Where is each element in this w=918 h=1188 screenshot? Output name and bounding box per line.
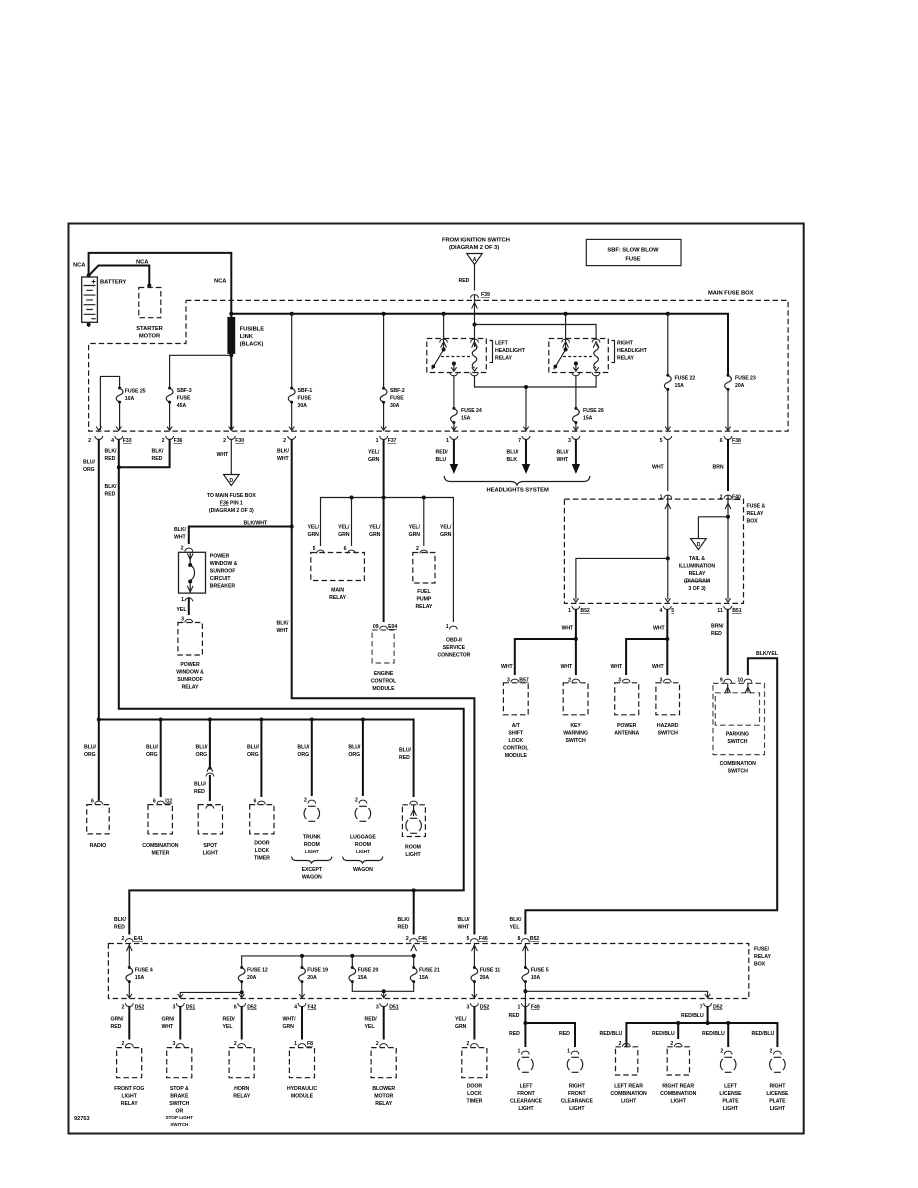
pin 09 E04 ECM — [380, 626, 388, 629]
wire fuse 26 branch — [575, 376, 577, 430]
wire headlamp middle drop — [525, 387, 527, 430]
svg-text:ROOM: ROOM — [355, 842, 371, 848]
triangle A from ignition — [467, 254, 483, 265]
svg-text:HEADLIGHT: HEADLIGHT — [617, 348, 648, 354]
svg-text:FUSE 20: FUSE 20 — [358, 968, 379, 974]
svg-text:D52: D52 — [135, 1005, 145, 1011]
svg-text:GRN: GRN — [283, 1024, 295, 1030]
svg-text:FUSE 21: FUSE 21 — [419, 968, 440, 974]
svg-text:2: 2 — [467, 1041, 470, 1047]
svg-text:YEL: YEL — [223, 1024, 234, 1030]
svg-text:NCA: NCA — [214, 279, 227, 285]
svg-text:7: 7 — [700, 1005, 703, 1011]
trunk room light bulb — [304, 806, 320, 821]
svg-text:20A: 20A — [480, 975, 490, 981]
fuse FUSE 20 15A — [349, 966, 356, 983]
svg-text:FUSE: FUSE — [298, 396, 312, 402]
pin 5 F46 — [470, 939, 478, 942]
svg-text:RELAY: RELAY — [233, 1094, 250, 1100]
label left headlight relay — [490, 341, 493, 363]
svg-text:SBF-2: SBF-2 — [390, 388, 405, 394]
svg-text:POWER: POWER — [180, 662, 200, 668]
pin 2 F36 — [167, 427, 172, 431]
pin 1 F37 — [381, 427, 386, 431]
svg-text:D51: D51 — [389, 1005, 399, 1011]
svg-text:5: 5 — [671, 608, 674, 614]
wire BRN F38-6 — [727, 439, 729, 491]
svg-text:LIGHT: LIGHT — [569, 1106, 585, 1112]
svg-text:YEL/: YEL/ — [368, 450, 380, 456]
svg-text:YEL: YEL — [365, 1024, 376, 1030]
wire left license drop — [727, 1023, 729, 1047]
svg-text:LIGHT: LIGHT — [122, 1094, 138, 1100]
wire fuel pump drop — [423, 498, 425, 547]
svg-text:RED/BLU: RED/BLU — [600, 1031, 623, 1037]
svg-text:F46: F46 — [418, 936, 427, 942]
pin 1 F40 — [664, 495, 672, 498]
fuse FUSE 19 20A — [299, 966, 306, 983]
combination switch outer box — [713, 683, 765, 754]
svg-text:RELAY: RELAY — [375, 1101, 392, 1107]
svg-text:D: D — [697, 542, 701, 548]
svg-text:YEL/: YEL/ — [338, 525, 350, 531]
svg-text:CLEARANCE: CLEARANCE — [561, 1099, 594, 1105]
pin 6 main relay — [348, 550, 356, 553]
wire BLU/ORG long drop to radio — [98, 439, 100, 800]
svg-text:FUSE: FUSE — [390, 396, 404, 402]
wire fuse 24 branch — [453, 376, 455, 430]
svg-text:3: 3 — [172, 1041, 175, 1047]
fusible link F1 (black) — [227, 317, 235, 354]
svg-text:2: 2 — [416, 546, 419, 552]
svg-text:RELAY: RELAY — [415, 604, 432, 610]
svg-text:FRONT: FRONT — [517, 1091, 535, 1097]
fuel pump relay box — [413, 553, 435, 584]
svg-text:NCA: NCA — [136, 260, 149, 266]
svg-text:11: 11 — [717, 608, 723, 614]
wire SBF-1 drop — [291, 314, 293, 430]
svg-text:YEL: YEL — [177, 607, 188, 613]
svg-text:LEFT: LEFT — [520, 1084, 534, 1090]
wire WHT/GRN hydraulic — [301, 1007, 303, 1040]
svg-text:SWITCH: SWITCH — [169, 1101, 189, 1107]
svg-text:BLK/WHT: BLK/WHT — [244, 521, 268, 527]
svg-text:ORG: ORG — [84, 752, 96, 758]
svg-text:FUSE: FUSE — [177, 396, 191, 402]
svg-text:BLU: BLU — [436, 457, 447, 463]
svg-text:5: 5 — [660, 438, 663, 444]
svg-text:1: 1 — [446, 438, 449, 444]
power window & sunroof relay — [178, 623, 203, 656]
wire rear lights rail — [626, 1023, 777, 1047]
svg-text:LEFT: LEFT — [724, 1084, 738, 1090]
wire BLU/WHT headlight — [575, 439, 577, 464]
svg-text:PLATE: PLATE — [722, 1099, 739, 1105]
svg-text:RED: RED — [105, 492, 116, 498]
node fusible link top — [229, 312, 233, 316]
svg-text:METER: METER — [151, 851, 169, 857]
svg-text:GRN: GRN — [368, 457, 380, 463]
svg-text:GRN: GRN — [409, 532, 421, 538]
svg-text:WHT: WHT — [652, 465, 665, 471]
pin 9 combination — [724, 679, 732, 682]
svg-text:BLK/: BLK/ — [174, 527, 187, 533]
svg-text:D51: D51 — [186, 1005, 196, 1011]
svg-text:2: 2 — [181, 546, 184, 552]
svg-text:LEFT: LEFT — [495, 341, 509, 347]
node tail relay branch 1 — [666, 556, 670, 560]
svg-text:WHT: WHT — [611, 664, 624, 670]
svg-text:D52: D52 — [480, 1005, 490, 1011]
svg-text:9: 9 — [720, 678, 723, 684]
svg-text:SWITCH: SWITCH — [566, 738, 586, 744]
svg-text:PLATE: PLATE — [769, 1099, 786, 1105]
pin 2 circuit breaker — [185, 548, 193, 551]
svg-text:FUSE 22: FUSE 22 — [675, 376, 696, 382]
right relay link dashed — [563, 356, 594, 358]
svg-text:HEADLIGHTS SYSTEM: HEADLIGHTS SYSTEM — [487, 488, 549, 494]
wire fuse5 to D52-7 — [525, 991, 707, 997]
svg-text:RELAY: RELAY — [747, 511, 764, 517]
svg-text:CONNECTOR: CONNECTOR — [437, 653, 470, 659]
svg-text:COMBINATION: COMBINATION — [660, 1091, 697, 1097]
svg-text:LIGHT: LIGHT — [356, 849, 370, 854]
svg-text:LIGHT: LIGHT — [671, 1099, 687, 1105]
fuse FUSE 11 20A — [471, 966, 478, 983]
svg-text:RELAY: RELAY — [754, 954, 771, 960]
svg-text:2: 2 — [304, 798, 307, 804]
svg-text:FUSE &: FUSE & — [747, 504, 766, 510]
wire door lock timer drop — [260, 720, 262, 798]
node starter motor terminal — [147, 284, 151, 288]
svg-text:SUNROOF: SUNROOF — [177, 677, 203, 683]
svg-text:BLK/: BLK/ — [152, 449, 165, 455]
node SBF-1 bus tap — [290, 312, 294, 316]
pin 2 left rear comb — [622, 1043, 630, 1046]
node battery positive — [87, 274, 91, 278]
svg-text:RELAY: RELAY — [329, 595, 346, 601]
svg-text:WAGON: WAGON — [302, 875, 322, 881]
svg-text:FROM IGNITION SWITCH: FROM IGNITION SWITCH — [442, 238, 510, 244]
hazard switch box — [656, 683, 680, 715]
wire left relay switch feed — [443, 314, 445, 348]
pin 2 F40 — [724, 495, 732, 498]
svg-text:HORN: HORN — [234, 1086, 249, 1092]
svg-text:F39: F39 — [481, 292, 490, 298]
svg-text:FUSE 19: FUSE 19 — [307, 968, 328, 974]
pin 3 pw relay — [185, 619, 193, 622]
left relay output — [452, 362, 456, 366]
svg-text:FUSE 25: FUSE 25 — [125, 389, 146, 395]
front fog light relay box — [117, 1048, 142, 1078]
wire GRN/WHT stop switch — [179, 1007, 181, 1040]
svg-text:F36: F36 — [174, 438, 183, 444]
svg-text:ORG: ORG — [146, 752, 158, 758]
svg-text:30A: 30A — [390, 403, 400, 409]
svg-text:15A: 15A — [583, 416, 593, 422]
svg-text:FUSE 26: FUSE 26 — [583, 408, 604, 414]
wire fuse11 column — [473, 944, 475, 998]
svg-text:1: 1 — [518, 1005, 521, 1011]
svg-text:6: 6 — [254, 799, 257, 805]
wire main bus from fusible link — [231, 314, 728, 374]
svg-text:SBF: SLOW BLOW: SBF: SLOW BLOW — [607, 248, 659, 254]
wire RED/BLU rear feed — [707, 1007, 709, 1024]
svg-text:ORG: ORG — [247, 752, 259, 758]
svg-text:LICENSE: LICENSE — [766, 1091, 789, 1097]
svg-text:6: 6 — [344, 546, 347, 552]
svg-text:2: 2 — [720, 1049, 723, 1055]
svg-text:HEADLIGHT: HEADLIGHT — [495, 348, 526, 354]
svg-text:ENGINE: ENGINE — [374, 671, 394, 677]
svg-text:LUGGAGE: LUGGAGE — [350, 835, 376, 841]
pin 3 D51 blower — [380, 1003, 388, 1006]
svg-text:8: 8 — [518, 936, 521, 942]
pin 2 (BLK/WHT) — [289, 427, 294, 431]
room light bulb — [406, 818, 422, 833]
svg-text:GRN: GRN — [308, 532, 320, 538]
svg-text:2: 2 — [619, 1041, 622, 1047]
node SBF-2 bus tap — [382, 312, 386, 316]
svg-text:BLK/: BLK/ — [114, 917, 127, 923]
svg-text:RED: RED — [111, 1024, 122, 1030]
pin 6 F38 — [725, 427, 730, 431]
svg-text:RED/: RED/ — [436, 450, 449, 456]
svg-text:3: 3 — [172, 1005, 175, 1011]
svg-text:PARKING: PARKING — [726, 732, 749, 738]
svg-text:(DIAGRAM 2 OF 3): (DIAGRAM 2 OF 3) — [449, 245, 499, 251]
svg-text:POWER: POWER — [210, 554, 230, 560]
svg-text:FUSE 11: FUSE 11 — [480, 968, 501, 974]
svg-text:6: 6 — [720, 438, 723, 444]
svg-text:MODULE: MODULE — [505, 753, 528, 759]
svg-text:2: 2 — [406, 936, 409, 942]
wire fuse19 column — [301, 956, 303, 998]
svg-text:GRN: GRN — [440, 532, 452, 538]
svg-text:10A: 10A — [531, 975, 541, 981]
svg-text:F38: F38 — [732, 438, 741, 444]
svg-text:LIGHT: LIGHT — [518, 1106, 534, 1112]
svg-text:LIGHT: LIGHT — [305, 849, 319, 854]
fuse FUSE 22 15A — [664, 374, 671, 391]
wire WHT F30 to triangle — [230, 439, 232, 474]
svg-text:GRN: GRN — [455, 1024, 467, 1030]
svg-text:(DIAGRAM: (DIAGRAM — [684, 579, 710, 585]
svg-text:BLK/: BLK/ — [510, 917, 523, 923]
svg-text:WINDOW &: WINDOW & — [176, 670, 204, 676]
svg-text:(BLACK): (BLACK) — [240, 342, 264, 348]
svg-text:2: 2 — [121, 1041, 124, 1047]
svg-text:2: 2 — [376, 1041, 379, 1047]
svg-text:3: 3 — [568, 438, 571, 444]
power antenna box — [615, 683, 639, 715]
wire RED ignition feed — [474, 265, 476, 325]
pin 3 hazard — [663, 679, 671, 682]
left headlight relay box — [427, 339, 487, 373]
wire SBF-3 branch — [170, 355, 232, 430]
node tail relay D branch — [726, 515, 730, 519]
svg-text:RED: RED — [114, 925, 125, 931]
svg-text:LIGHT: LIGHT — [405, 852, 421, 858]
pin 7 D52 rear lights — [704, 1003, 712, 1006]
pin 3 D51 stop — [176, 1003, 184, 1006]
horn relay box — [229, 1048, 254, 1078]
svg-text:SWITCH: SWITCH — [658, 731, 678, 737]
svg-text:BLU/: BLU/ — [84, 745, 97, 751]
svg-text:SBF-1: SBF-1 — [298, 388, 313, 394]
svg-text:GRN/: GRN/ — [162, 1017, 175, 1023]
svg-text:FUSE 23: FUSE 23 — [735, 376, 756, 382]
pin 1 right front clearance — [571, 1051, 579, 1054]
svg-text:09: 09 — [373, 624, 379, 630]
combination meter box — [148, 805, 172, 834]
svg-text:TAIL &: TAIL & — [689, 556, 705, 562]
svg-text:F30: F30 — [235, 438, 244, 444]
pin 4 F33 — [116, 427, 121, 431]
svg-text:RED: RED — [509, 1013, 520, 1019]
svg-text:SWITCH: SWITCH — [727, 739, 747, 745]
svg-text:HYDRAULIC: HYDRAULIC — [287, 1086, 317, 1092]
svg-text:STOP &: STOP & — [170, 1086, 189, 1092]
main relay box — [311, 553, 365, 581]
svg-text:2: 2 — [223, 438, 226, 444]
pin 2 F30 — [229, 427, 234, 431]
svg-text:SERVICE: SERVICE — [443, 645, 466, 651]
svg-text:RELAY: RELAY — [121, 1101, 138, 1107]
wire right rear comb drop — [677, 1023, 679, 1039]
pin 2 luggage light — [359, 800, 367, 803]
pin 2 D52 front fog — [125, 1003, 133, 1006]
right relay switch — [564, 348, 568, 352]
pin 2 front fog relay — [125, 1044, 133, 1047]
svg-text:3: 3 — [376, 1005, 379, 1011]
wire fuse12 outputs — [241, 982, 243, 998]
pin 3 power antenna — [622, 679, 630, 682]
svg-text:RED: RED — [711, 631, 722, 637]
svg-text:YEL/: YEL/ — [440, 525, 452, 531]
fuse FUSE 25 10A — [116, 387, 123, 404]
node BLK/RED split — [412, 888, 416, 892]
svg-text:RED/: RED/ — [365, 1017, 378, 1023]
svg-text:45A: 45A — [177, 403, 187, 409]
svg-text:RELAY: RELAY — [182, 685, 199, 691]
door lock timer box bottom — [462, 1048, 487, 1078]
pin 8 B52 — [521, 939, 529, 942]
svg-text:WHT/: WHT/ — [283, 1017, 297, 1023]
right rear combination light box — [667, 1047, 689, 1075]
svg-text:BATTERY: BATTERY — [100, 280, 127, 286]
svg-text:F8: F8 — [307, 1041, 313, 1047]
label right headlight relay — [612, 341, 615, 363]
svg-text:FUSE 4: FUSE 4 — [135, 968, 153, 974]
wire tail relay feed 1 — [667, 495, 669, 600]
svg-text:YEL/: YEL/ — [369, 525, 381, 531]
svg-text:1: 1 — [446, 624, 449, 630]
svg-text:6: 6 — [91, 799, 94, 805]
svg-text:B52: B52 — [530, 936, 540, 942]
svg-text:FUEL: FUEL — [417, 589, 431, 595]
wire room lamp bus — [99, 720, 414, 798]
pin 1 breaker bottom — [185, 598, 193, 601]
pin F39 — [471, 295, 479, 298]
svg-text:TIMER: TIMER — [466, 1099, 482, 1105]
wire fuse feeder rail — [242, 956, 414, 966]
svg-text:ORG: ORG — [196, 752, 208, 758]
wire tail relay left branch — [576, 558, 668, 599]
svg-text:YEL/: YEL/ — [455, 1017, 467, 1023]
svg-text:3: 3 — [181, 617, 184, 623]
pin 2 key warning — [572, 679, 580, 682]
wire fuse20 column — [352, 956, 383, 991]
svg-text:TRUNK: TRUNK — [303, 835, 321, 841]
wire luggage room light drop — [362, 720, 364, 797]
spot light box — [206, 805, 214, 808]
svg-text:RIGHT: RIGHT — [769, 1084, 786, 1090]
svg-text:2: 2 — [670, 1041, 673, 1047]
svg-text:I12: I12 — [165, 799, 172, 805]
svg-text:DOOR: DOOR — [254, 841, 270, 847]
svg-text:FRONT FOG: FRONT FOG — [114, 1086, 144, 1092]
svg-text:WINDOW &: WINDOW & — [210, 561, 238, 567]
svg-text:B52: B52 — [580, 608, 590, 614]
svg-text:HAZARD: HAZARD — [657, 723, 679, 729]
node BLK/WHT breaker tap — [290, 525, 294, 529]
svg-text:BRN: BRN — [713, 465, 724, 471]
svg-text:LOCK: LOCK — [509, 738, 524, 744]
svg-text:LEFT REAR: LEFT REAR — [614, 1084, 643, 1090]
svg-text:RELAY: RELAY — [689, 571, 706, 577]
svg-text:1: 1 — [518, 1049, 521, 1055]
svg-text:POWER: POWER — [617, 723, 637, 729]
parking switch inner box — [715, 693, 759, 725]
svg-text:D52: D52 — [247, 1005, 257, 1011]
pin 4 / 5 — [663, 606, 671, 609]
luggage room light bulb — [355, 806, 371, 821]
svg-text:STARTER: STARTER — [136, 326, 163, 332]
svg-text:ROOM: ROOM — [405, 845, 421, 851]
svg-text:WAGON: WAGON — [353, 867, 373, 873]
svg-text:WHT: WHT — [561, 664, 574, 670]
pin 6 radio — [95, 801, 103, 804]
svg-text:BLK/: BLK/ — [105, 449, 118, 455]
svg-text:CONTROL: CONTROL — [371, 679, 397, 685]
svg-text:ROOM: ROOM — [304, 842, 320, 848]
svg-text:BLU/: BLU/ — [557, 450, 570, 456]
svg-text:GRN: GRN — [338, 532, 350, 538]
pin 1 left front clearance — [521, 1051, 529, 1054]
svg-text:TO MAIN FUSE BOX: TO MAIN FUSE BOX — [207, 493, 257, 499]
pin 2 F46 — [410, 939, 418, 942]
svg-text:20A: 20A — [735, 383, 745, 389]
svg-text:WHT: WHT — [174, 535, 187, 541]
svg-text:BLK/: BLK/ — [277, 449, 290, 455]
fuse SBF-2 30A — [380, 387, 387, 404]
svg-text:ORG: ORG — [297, 752, 309, 758]
radio box — [87, 805, 110, 834]
room light box — [402, 805, 425, 837]
key warning switch box — [563, 683, 588, 715]
pin 5 main relay — [317, 550, 325, 553]
page border frame — [69, 224, 804, 1134]
fuse/relay box outline — [108, 944, 748, 999]
wire RED/YEL horn — [241, 1007, 243, 1040]
pin 3 (BLU/WHT) — [573, 427, 578, 431]
wire BLK/RED F36 link — [119, 439, 170, 467]
wire relay coil bottom rail — [475, 376, 597, 387]
svg-text:RIGHT: RIGHT — [617, 341, 634, 347]
wire BLK/WHT main — [292, 439, 475, 934]
wire to triangle D — [698, 517, 728, 539]
